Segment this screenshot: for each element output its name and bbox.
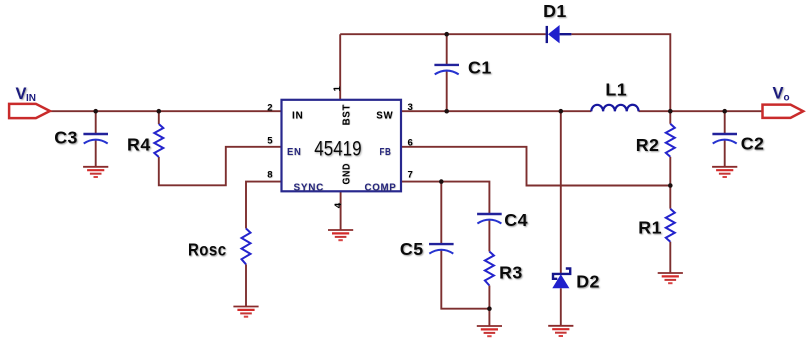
resistor R1	[666, 209, 675, 242]
label C5	[400, 239, 424, 259]
svg-text:EN: EN	[287, 146, 302, 158]
svg-text:o: o	[784, 93, 790, 104]
label Rosc	[188, 240, 227, 260]
svg-text:COMP: COMP	[365, 182, 397, 194]
pin number 6	[408, 138, 413, 149]
svg-text:IN: IN	[292, 110, 304, 122]
wire D2 anode to ground	[560, 288, 562, 326]
svg-text:C4: C4	[504, 210, 528, 230]
pin label EN	[287, 146, 302, 158]
capacitor C2	[712, 134, 737, 144]
label R4	[127, 135, 151, 155]
wire C4 to R3	[488, 220, 490, 252]
wire SYNC pin 8 to Rosc	[246, 182, 282, 229]
pin label GND	[341, 163, 353, 185]
ground under R3/C5	[477, 326, 502, 336]
svg-text:IN: IN	[26, 93, 36, 104]
svg-text:D2: D2	[576, 272, 600, 292]
capacitor C4	[477, 214, 502, 224]
svg-text:R1: R1	[638, 218, 662, 238]
pin label SYNC	[294, 182, 325, 194]
svg-text:Rosc: Rosc	[188, 240, 227, 260]
svg-text:R2: R2	[636, 135, 660, 155]
wire R2 bottom to tap	[669, 157, 671, 186]
pin number 5	[267, 136, 273, 147]
ground under Rosc	[233, 307, 258, 317]
pin number 8	[267, 170, 272, 181]
resistor R4	[154, 124, 163, 157]
svg-text:6: 6	[408, 138, 413, 149]
label C2	[741, 133, 765, 153]
svg-text:5: 5	[267, 136, 273, 147]
label C3	[54, 128, 78, 148]
IC U1 45419	[282, 100, 402, 192]
capacitor C1	[434, 65, 459, 75]
wire top rail right of D1 down to SW rail	[571, 34, 670, 111]
wire R4 bottom to EN pin 5	[159, 147, 282, 186]
svg-text:SYNC: SYNC	[294, 182, 325, 194]
inductor L1	[591, 105, 638, 112]
wire C3 branch	[95, 111, 97, 167]
svg-text:V: V	[773, 85, 784, 103]
pin number 4	[333, 202, 344, 208]
svg-text:4: 4	[333, 202, 344, 208]
label Vo	[773, 85, 790, 104]
svg-text:BST: BST	[341, 104, 353, 126]
wire COMP pin 7 to C4	[401, 182, 489, 215]
svg-text:R4: R4	[127, 135, 151, 155]
node FB divider tap	[668, 183, 673, 188]
wire BST pin 1 vertical	[339, 34, 341, 100]
resistor R3	[485, 252, 494, 286]
wire C5 branch top	[440, 182, 442, 245]
svg-text:7: 7	[408, 170, 413, 181]
pin number 2	[267, 102, 272, 113]
ground under R1	[658, 273, 683, 283]
wire R4 top stub	[158, 111, 160, 124]
svg-text:2: 2	[267, 102, 272, 113]
wire D2 branch top	[560, 111, 562, 273]
label D1	[543, 1, 567, 21]
wire FB pin 6 to divider tap	[401, 147, 670, 186]
label C1	[468, 58, 492, 78]
port VIN	[9, 104, 50, 118]
svg-text:V: V	[16, 85, 27, 103]
wire R1 bottom to ground	[669, 242, 671, 273]
svg-text:D1: D1	[543, 1, 567, 21]
capacitor C3	[83, 134, 108, 144]
pin number 3	[408, 102, 413, 113]
wire R1 top stub	[669, 186, 671, 209]
wire L1 to Vo port	[639, 110, 763, 112]
label L1	[605, 80, 627, 100]
node C5 tap	[439, 179, 444, 184]
svg-text:C1: C1	[468, 58, 492, 78]
resistor Rosc	[242, 229, 251, 265]
pin label SW	[376, 110, 393, 122]
node D2 tap	[559, 109, 564, 114]
pin label IN	[292, 110, 304, 122]
label R2	[636, 135, 660, 155]
node C2 tap	[722, 109, 727, 114]
node C1 SW rail	[444, 109, 449, 114]
wire C1 top stub	[446, 34, 448, 65]
svg-text:1: 1	[332, 86, 343, 92]
label VIN	[16, 85, 37, 104]
pin number 7	[408, 170, 413, 181]
wire C2 branch	[724, 111, 726, 167]
wire input rail Vin to IN pin	[50, 110, 282, 112]
wire SW pin 3 to L1	[401, 110, 591, 112]
pin number 1	[332, 86, 343, 92]
wire R3 bottom to ground	[488, 286, 490, 327]
node input C3 tap	[93, 109, 98, 114]
pin label COMP	[365, 182, 397, 194]
node input R4 tap	[157, 109, 162, 114]
ground under D2	[548, 326, 573, 336]
wire Rosc bottom to ground	[245, 264, 247, 306]
wire top rail left of D1	[340, 33, 546, 35]
wire C5 bottom to R3 bottom	[441, 250, 489, 309]
ground under C2	[712, 167, 737, 177]
wire GND pin 4 stub	[340, 191, 342, 230]
node D1/R2 rail	[668, 109, 673, 114]
svg-text:L1: L1	[605, 80, 627, 100]
svg-text:C3: C3	[54, 128, 78, 148]
svg-text:3: 3	[408, 102, 413, 113]
pin label BST	[341, 104, 353, 126]
svg-text:FB: FB	[380, 146, 392, 158]
diode D1	[547, 25, 572, 43]
ground under GND pin 4	[328, 230, 353, 240]
svg-text:SW: SW	[376, 110, 393, 122]
node C1 top rail	[444, 32, 449, 37]
label C4	[504, 210, 528, 230]
label D2	[576, 272, 600, 292]
svg-text:R3: R3	[499, 262, 523, 282]
capacitor C5	[429, 244, 454, 254]
node R3/C5 bottom	[487, 306, 492, 311]
zener diode D2	[552, 269, 570, 289]
label R1	[638, 218, 662, 238]
svg-text:C5: C5	[400, 239, 424, 259]
svg-text:8: 8	[267, 170, 272, 181]
wire R2 top stub	[669, 111, 671, 124]
resistor R2	[666, 124, 675, 157]
wire C1 bottom stub	[446, 71, 448, 112]
svg-text:45419: 45419	[314, 137, 361, 160]
label R3	[499, 262, 523, 282]
pin label FB	[380, 146, 392, 158]
svg-text:GND: GND	[341, 163, 353, 185]
svg-text:C2: C2	[741, 133, 765, 153]
port Vo	[763, 105, 804, 118]
ground under C3	[83, 167, 108, 177]
